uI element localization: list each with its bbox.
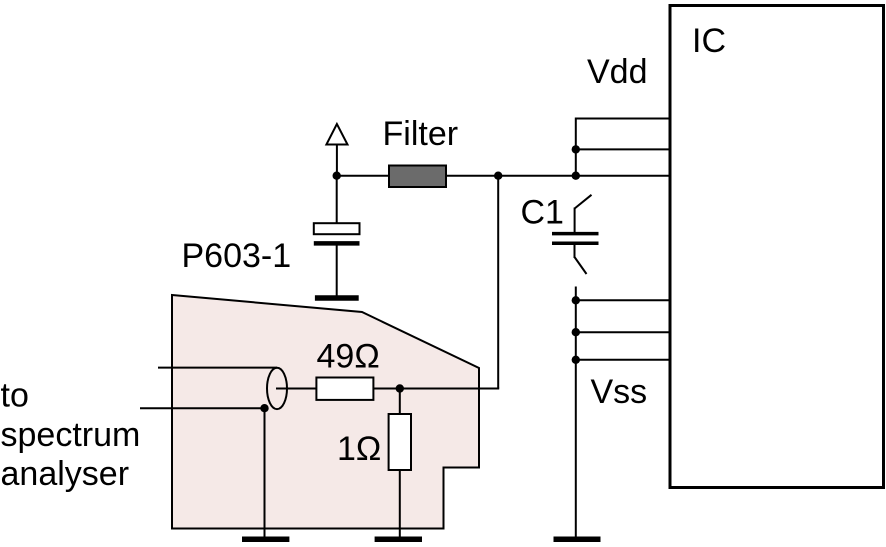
wire: Vdd pin 1 (top) <box>576 118 670 120</box>
svg-text:Vdd: Vdd <box>587 53 648 91</box>
ground bar under shield <box>242 537 289 543</box>
svg-text:C1: C1 <box>521 194 564 232</box>
wire: shield junction to ground <box>264 408 266 539</box>
svg-text:IC: IC <box>692 22 726 60</box>
chassis bar under decoupling capacitor <box>315 295 359 301</box>
wire: Vss pin 3 <box>576 359 670 361</box>
wire: Vss pin 2 <box>576 331 670 333</box>
svg-text:1Ω: 1Ω <box>337 430 381 468</box>
capacitor C1 bottom plate <box>552 241 599 245</box>
wire: Vdd pin 2 <box>576 148 670 150</box>
node: filter output / riser junction <box>494 172 502 180</box>
ground bar under 1Ω <box>375 537 422 543</box>
node: Vss bus / pin 1 junction <box>572 296 580 304</box>
svg-text:analyser: analyser <box>1 455 130 493</box>
wire: node to capacitor top plate <box>336 176 338 224</box>
probe body P603-1 (shaded shield box) <box>172 295 479 529</box>
wire: coax stub top <box>158 367 277 369</box>
filter block <box>389 166 446 188</box>
resistor 1Ω <box>389 414 411 470</box>
svg-text:49Ω: 49Ω <box>317 338 380 376</box>
wire: triangle to filter input node <box>336 145 338 176</box>
wire: Vss bus vertical <box>575 287 577 540</box>
node: 49Ω / 1Ω tap junction <box>396 384 404 392</box>
wire: connector to 49Ω resistor <box>276 388 316 390</box>
capacitor C1 top plate <box>552 232 599 236</box>
wire: 49Ω output to riser corner <box>373 388 499 390</box>
wire: capacitor bottom plate to chassis bar <box>336 243 338 296</box>
wire: Vss pin 1 <box>576 299 670 301</box>
supply arrow (triangle) <box>326 124 347 145</box>
decoupling capacitor bottom plate (solid) <box>314 241 360 246</box>
node: Vss bus / pin 2 junction <box>572 328 580 336</box>
svg-text:Vss: Vss <box>591 373 648 411</box>
svg-text:spectrum: spectrum <box>1 416 141 454</box>
resistor 49Ω <box>316 378 373 400</box>
svg-text:P603-1: P603-1 <box>182 237 292 275</box>
wire: 1Ω to ground <box>399 470 401 539</box>
wire: coax stub bottom <box>140 407 266 409</box>
capacitor C1 bottom lead diagonal (open) <box>575 257 587 274</box>
capacitor C1 top lead vertical <box>574 208 576 234</box>
coax connector ellipse <box>267 368 287 409</box>
capacitor C1 top lead diagonal (open) <box>575 195 592 209</box>
capacitor C1 bottom lead vertical <box>574 244 576 259</box>
node: Vdd bus / pin 3 junction <box>572 172 580 180</box>
node: coax shield junction <box>260 404 268 412</box>
decoupling capacitor top plate (hollow) <box>314 223 360 234</box>
IC U1 (chip outline) <box>670 6 884 488</box>
svg-text:Filter: Filter <box>383 115 459 153</box>
node: Vdd bus / pin 2 junction <box>572 145 580 153</box>
wire: riser from probe tap up to filter output <box>497 176 499 389</box>
ground bar under Vss bus <box>554 537 601 543</box>
wire: Vdd bus vertical <box>575 118 577 177</box>
node: filter input / supply junction <box>333 172 341 180</box>
wire: filter output to Vdd pin 3 <box>337 175 670 177</box>
wire: tap junction down to 1Ω <box>399 389 401 415</box>
svg-text:to: to <box>1 377 29 415</box>
node: Vss bus / pin 3 junction <box>572 356 580 364</box>
